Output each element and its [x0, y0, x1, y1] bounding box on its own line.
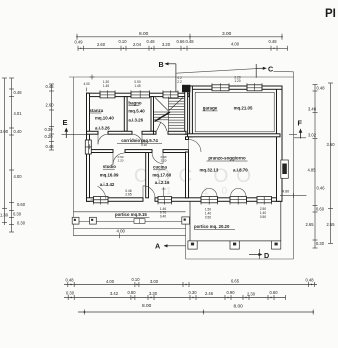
svg-text:1.45: 1.45: [103, 84, 109, 88]
svg-text:2.65: 2.65: [125, 193, 131, 197]
svg-text:a.i.3.42: a.i.3.42: [100, 182, 115, 187]
svg-text:2.60: 2.60: [97, 42, 106, 47]
dim labels bottom row 1: [66, 277, 315, 284]
window: stanza left wall: [85, 140, 91, 154]
svg-text:garage: garage: [203, 106, 218, 111]
dim line right inner: [314, 85, 316, 249]
wall: garage left: [190, 86, 193, 137]
svg-text:2.46: 2.46: [205, 291, 214, 296]
svg-text:3.20: 3.20: [162, 42, 171, 47]
svg-text:mq.17.60: mq.17.60: [152, 173, 171, 178]
door: pranzo west: [189, 140, 202, 153]
svg-text:0.50: 0.50: [205, 215, 211, 219]
portico left base detail: [134, 219, 145, 224]
svg-text:a.i.8.70: a.i.8.70: [233, 168, 248, 173]
svg-text:4.00: 4.00: [106, 279, 115, 284]
svg-text:3.48: 3.48: [308, 107, 317, 112]
svg-text:0.48: 0.48: [186, 39, 195, 44]
wall: studio-cucina divider: [146, 153, 149, 198]
svg-text:a.i.2.16: a.i.2.16: [155, 180, 170, 185]
boundary step vertical: [185, 218, 187, 260]
svg-text:mq.5.40: mq.5.40: [128, 108, 145, 113]
svg-text:3.00: 3.00: [222, 31, 232, 37]
svg-text:bagno: bagno: [128, 100, 141, 105]
svg-text:0.40: 0.40: [14, 129, 23, 134]
svg-text:2.04: 2.04: [133, 42, 142, 47]
svg-text:2.20: 2.20: [141, 143, 147, 147]
svg-text:2.55: 2.55: [327, 222, 336, 227]
portico left outer edge: [74, 228, 186, 230]
boundary line right vertical: [293, 72, 295, 259]
boundary line bottom horizontal: [186, 258, 294, 260]
svg-text:4.85: 4.85: [308, 168, 317, 173]
pranzo east extension line: [280, 194, 307, 196]
svg-text:A: A: [155, 241, 160, 250]
wall: exterior top (stanza/bagno/stair): [87, 93, 101, 96]
svg-text:a.i.3.26: a.i.3.26: [95, 125, 110, 130]
svg-text:1.30: 1.30: [0, 213, 9, 218]
portico left mid edge: [79, 221, 134, 223]
dim labels bottom row 2: [66, 290, 278, 297]
svg-text:3.00: 3.00: [150, 279, 159, 284]
pillar right 1: [188, 241, 197, 249]
section mark B: [159, 60, 176, 94]
wall: corridor top: [87, 131, 99, 134]
portico right east edge: [280, 201, 282, 241]
svg-text:PI: PI: [325, 8, 336, 20]
stair door leaf and arc: [157, 122, 167, 132]
portico right south edge: [188, 240, 281, 242]
cross mark on top boundary: [90, 75, 95, 80]
dim labels far-left column: [0, 90, 26, 226]
svg-text:0.90: 0.90: [227, 290, 236, 295]
svg-text:0.60: 0.60: [270, 290, 279, 295]
svg-text:0.40: 0.40: [160, 214, 166, 218]
svg-text:2.60: 2.60: [46, 103, 55, 108]
dim line bottom row 1: [64, 284, 317, 286]
window: studio south: [94, 197, 109, 203]
svg-text:3.00: 3.00: [0, 129, 9, 134]
svg-text:F: F: [298, 119, 303, 128]
svg-text:0.30: 0.30: [13, 212, 22, 217]
svg-text:4.00: 4.00: [117, 229, 126, 234]
section mark C: [256, 64, 273, 78]
svg-text:3.02: 3.02: [308, 133, 317, 138]
section mark E: [62, 118, 87, 138]
svg-text:0.30: 0.30: [189, 290, 198, 295]
portico left front edge: [74, 211, 186, 213]
window: pranzo south 1: [201, 197, 218, 203]
dim line left second: [11, 78, 13, 232]
svg-text:0.48: 0.48: [269, 39, 278, 44]
svg-text:4.00: 4.00: [14, 174, 23, 179]
svg-text:E: E: [63, 118, 68, 127]
window: pranzo south 2: [230, 197, 247, 203]
svg-text:8.00: 8.00: [234, 304, 244, 310]
dim line right outer: [330, 83, 332, 244]
svg-text:B: B: [159, 60, 164, 69]
door: stanza: [98, 134, 108, 144]
dim labels inner-left column: [45, 84, 55, 149]
window: cucina south: [158, 197, 172, 203]
door: studio french window swing: [91, 199, 107, 201]
window: stanza top: [100, 92, 115, 98]
dim line far left: [4, 78, 6, 225]
dim line bottom row 3: [78, 311, 313, 313]
svg-text:0.66: 0.66: [177, 39, 186, 44]
svg-text:0.50: 0.50: [260, 215, 266, 219]
svg-text:4.00: 4.00: [231, 42, 240, 47]
svg-text:1.45: 1.45: [134, 84, 140, 88]
door: pranzo french window 2 swing: [231, 188, 239, 196]
wall: corridor bottom: [87, 150, 114, 153]
svg-text:portico mq.9.15: portico mq.9.15: [115, 212, 147, 217]
svg-text:4.01: 4.01: [14, 111, 23, 116]
stair treads right half: [169, 98, 185, 100]
wall: garage south / pranzo north: [188, 134, 281, 137]
portico right west edge: [189, 202, 191, 241]
stair center stringer: [168, 97, 170, 132]
boundary line left vertical: [73, 77, 75, 236]
window: garage top 1: [212, 85, 229, 91]
svg-text:0.48: 0.48: [66, 278, 75, 283]
svg-text:0.30: 0.30: [66, 291, 75, 296]
wall: stair right: [185, 91, 188, 134]
svg-text:0.49: 0.49: [75, 40, 84, 45]
svg-text:mq.32.13: mq.32.13: [200, 168, 219, 173]
svg-text:6.65: 6.65: [231, 279, 240, 284]
svg-text:2.30: 2.30: [247, 292, 256, 297]
section mark D: [249, 249, 269, 260]
svg-text:corridoio mq.5.74: corridoio mq.5.74: [121, 138, 158, 143]
wall: black corner pillar at stair/garage: [182, 85, 190, 92]
svg-text:0.48: 0.48: [147, 39, 156, 44]
svg-text:0.60: 0.60: [316, 207, 325, 212]
svg-text:0.46: 0.46: [317, 186, 326, 191]
door: cucina: [152, 153, 163, 164]
boundary line top horizontal: [69, 76, 294, 78]
svg-text:0.30: 0.30: [17, 221, 26, 226]
svg-text:8.00: 8.00: [139, 31, 149, 37]
tick on boundary at garage south level: [289, 133, 297, 135]
svg-text:4.60: 4.60: [282, 190, 289, 194]
svg-text:0.10: 0.10: [119, 39, 128, 44]
wall: cucina-pranzo divider: [186, 137, 189, 140]
svg-text:studio: studio: [103, 164, 116, 169]
svg-text:cucina: cucina: [153, 164, 167, 169]
svg-text:1.20: 1.20: [234, 79, 240, 83]
pillar left 2: [90, 217, 97, 224]
dim labels right columns: [306, 86, 336, 247]
svg-text:0.10: 0.10: [132, 277, 141, 282]
window center lines: [100, 94, 115, 96]
svg-text:a.i.3.26: a.i.3.26: [128, 117, 143, 122]
svg-text:0.20: 0.20: [45, 134, 54, 139]
dim line bottom row 2: [64, 297, 286, 299]
pillar right 3: [272, 241, 281, 249]
door: pranzo french window 1 swing: [202, 188, 210, 196]
dim line top row 1: [77, 36, 282, 38]
svg-text:0.30: 0.30: [316, 241, 325, 246]
door: south entry: [143, 186, 155, 198]
wall: garage top: [189, 86, 212, 89]
svg-text:2.20: 2.20: [118, 158, 124, 162]
svg-text:4.00: 4.00: [84, 82, 90, 86]
dim line top row 2: [78, 47, 288, 49]
svg-text:3.60: 3.60: [327, 142, 336, 147]
stair cut line: [155, 112, 171, 122]
svg-text:C: C: [268, 64, 273, 73]
svg-text:2.20: 2.20: [161, 158, 167, 162]
svg-text:2.2: 2.2: [177, 80, 182, 84]
svg-text:mq.10.40: mq.10.40: [95, 116, 114, 121]
svg-text:0.30: 0.30: [45, 127, 54, 132]
svg-text:mq.21.05: mq.21.05: [234, 106, 253, 111]
svg-text:mq.16.09: mq.16.09: [100, 173, 119, 178]
portico left dim 4.00: [74, 235, 186, 237]
section mark F: [294, 119, 306, 139]
pillar right 2: [230, 241, 239, 249]
dim labels top row 2: [75, 39, 278, 47]
svg-text:8.00: 8.00: [142, 303, 152, 309]
door: cucina south leaf: [163, 187, 165, 197]
svg-text:0.48: 0.48: [46, 144, 55, 149]
wall: bagno-stair divider: [151, 97, 154, 132]
svg-text:2.65: 2.65: [306, 222, 315, 227]
section mark A: [155, 241, 186, 250]
stair treads left half: [154, 111, 169, 113]
svg-text:D: D: [264, 251, 269, 260]
stair diagonal right: [169, 98, 183, 111]
svg-text:0.60: 0.60: [17, 202, 26, 207]
window: pranzo south 3: [257, 197, 272, 203]
cross mark in corridor: [87, 144, 92, 149]
svg-text:portico mq. 20.20: portico mq. 20.20: [194, 224, 230, 229]
svg-text:0.48: 0.48: [306, 278, 315, 283]
pillar left 3 (corner): [182, 217, 190, 224]
wall: exterior south: [87, 198, 94, 202]
wall: exterior left: [87, 93, 90, 140]
window: bagno top: [131, 92, 150, 98]
window: stair top: [163, 92, 178, 98]
svg-text:0.45: 0.45: [46, 84, 55, 89]
door: bagno: [132, 134, 142, 144]
wall: exterior right (garage+pranzo): [277, 88, 283, 202]
window: garage top 2: [247, 85, 262, 91]
svg-text:0.80: 0.80: [128, 290, 137, 295]
svg-text:stanza: stanza: [90, 108, 104, 113]
stair diagonal left: [155, 98, 168, 111]
svg-text:0.48: 0.48: [14, 90, 23, 95]
garage inner outline: [195, 92, 274, 132]
svg-text:3.42: 3.42: [110, 291, 119, 296]
pillar left 1: [72, 217, 79, 224]
svg-text:3.30: 3.30: [149, 291, 158, 296]
section line B to C to boundary: [176, 69, 256, 74]
svg-text:pranzo-soggiorno: pranzo-soggiorno: [208, 156, 246, 161]
svg-text:0.48: 0.48: [317, 86, 326, 91]
door: studio: [113, 153, 125, 165]
dim line left inner short: [51, 84, 53, 150]
wall: stanza-bagno divider: [124, 97, 127, 132]
